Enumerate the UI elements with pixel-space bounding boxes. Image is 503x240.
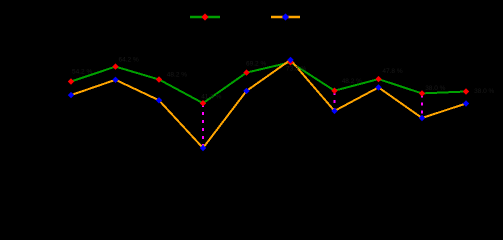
svg-text:64.2 %: 64.2 % (119, 57, 139, 64)
svg-text:48.2 %: 48.2 % (342, 78, 362, 85)
svg-text:38.0 %: 38.0 % (474, 88, 494, 95)
series 1 line (green) (71, 62, 466, 103)
legend sample 1 (green + red diamond) (190, 16, 220, 19)
svg-text:41.8 %: 41.8 % (201, 94, 221, 101)
significance dash p4 (202, 104, 204, 147)
svg-text:69.2 %: 69.2 % (246, 61, 266, 68)
significance dash p7 (334, 92, 336, 110)
svg-text:47.8 %: 47.8 % (382, 68, 402, 75)
svg-text:48.2 %: 48.2 % (167, 72, 187, 79)
blue diamond markers (68, 57, 469, 152)
red diamond markers (68, 59, 469, 106)
svg-text:73.8 %: 73.8 % (286, 66, 306, 73)
series 2 line (orange) (71, 60, 466, 148)
svg-text:38.0 %: 38.0 % (425, 85, 445, 92)
legend sample 2 (orange + blue diamond) (271, 16, 300, 19)
faint point labels (72, 57, 495, 101)
svg-text:54.2 %: 54.2 % (72, 68, 92, 75)
significance dash p9 (421, 95, 423, 118)
